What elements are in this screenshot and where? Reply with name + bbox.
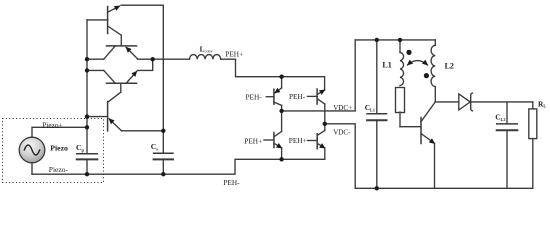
wire right top bbox=[355, 39, 435, 41]
wire emitter jog bbox=[138, 59, 153, 70]
coupling arrow bbox=[408, 61, 428, 65]
svg-text:VDC+: VDC+ bbox=[333, 104, 352, 112]
wire left rail bbox=[86, 20, 88, 154]
capacitor Crect (C_L1) bbox=[367, 40, 386, 188]
capacitor Cp bbox=[77, 154, 98, 175]
transistor Q3 (lower middle bridge, bar horizontal) bbox=[104, 70, 137, 102]
wire Q2 emitter to junction bbox=[138, 58, 190, 60]
svg-text:PEH+: PEH+ bbox=[244, 136, 262, 145]
diode D bbox=[459, 93, 533, 111]
wire diode line bbox=[435, 101, 459, 103]
svg-text:L2: L2 bbox=[445, 62, 454, 71]
svg-text:PEH-: PEH- bbox=[246, 92, 263, 101]
wire VDC- bbox=[325, 124, 355, 189]
transistor Q5 (PEH- upper left of quad) bbox=[266, 77, 281, 111]
svg-text:PEH-: PEH- bbox=[289, 92, 306, 101]
svg-text:Lconv: Lconv bbox=[200, 44, 214, 53]
transistor Q8 (PEH+ lower right of quad) bbox=[308, 124, 325, 160]
svg-text:RL: RL bbox=[538, 99, 546, 108]
wire Q3 collector to left rail bbox=[87, 69, 104, 71]
svg-text:Piezo-: Piezo- bbox=[49, 165, 69, 174]
transistor Q9 (flyback switch) bbox=[421, 102, 435, 188]
capacitor Cr2 bbox=[497, 102, 518, 188]
wire top rail bbox=[121, 5, 163, 153]
wire bottom rail piezo- bbox=[32, 159, 325, 174]
transistor Q2 (upper middle bridge, bar horizontal) bbox=[104, 46, 138, 59]
svg-text:Piezo: Piezo bbox=[50, 144, 68, 153]
wire bottom right rail bbox=[355, 187, 533, 189]
transistor Q6 (PEH- upper right of quad) bbox=[308, 89, 325, 124]
svg-text:PEH+: PEH+ bbox=[289, 136, 307, 145]
svg-text:VDC-: VDC- bbox=[333, 129, 351, 137]
svg-text:PEH+: PEH+ bbox=[225, 49, 243, 58]
polarity dot L2 bbox=[424, 73, 429, 78]
resistor RL bbox=[529, 102, 537, 188]
svg-text:CL1: CL1 bbox=[365, 103, 375, 112]
inductor L1 bbox=[396, 40, 422, 127]
svg-text:Cp: Cp bbox=[76, 143, 84, 152]
transistor Q4 (bottom-left bridge, bar vertical) bbox=[87, 102, 122, 131]
wire Q4 emitter to right rail bbox=[122, 130, 164, 132]
transistor Q1 (top-left bridge, bar vertical) bbox=[87, 6, 121, 46]
inductor L2 bbox=[431, 40, 435, 102]
svg-text:PEH-: PEH- bbox=[223, 178, 240, 187]
svg-text:Cs: Cs bbox=[151, 142, 158, 151]
inductor Lconv bbox=[190, 55, 221, 60]
wire Q2 collector to left rail bbox=[87, 58, 104, 60]
transistor Q7 (PEH+ lower left of quad) bbox=[264, 111, 282, 159]
capacitor Cs bbox=[154, 153, 173, 174]
wire VDC+ bbox=[282, 40, 356, 111]
wire Lconv to PEH+ node bbox=[221, 59, 325, 90]
svg-text:L1: L1 bbox=[382, 60, 391, 69]
piezo source bbox=[19, 127, 87, 174]
svg-text:Piezo+: Piezo+ bbox=[42, 121, 62, 130]
svg-text:CL2: CL2 bbox=[495, 113, 505, 122]
polarity dot L1 bbox=[406, 50, 411, 55]
dashed box piezo bbox=[3, 119, 104, 183]
